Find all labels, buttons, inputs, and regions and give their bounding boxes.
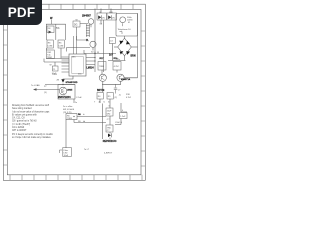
capacitor C6 [106, 125, 113, 132]
border frame inner [7, 9, 141, 174]
capacitor C3 [109, 38, 115, 61]
svg-text:10uF: 10uF [64, 155, 69, 157]
svg-text:P4: it keeps set sorts correct: P4: it keeps set sorts correctly in musl… [12, 133, 53, 136]
svg-text:2N45: 2N45 [67, 89, 73, 92]
svg-text:Drawing from Nuffield: as some: Drawing from Nuffield: as some stuff [12, 104, 49, 107]
resistor R6 [47, 40, 53, 48]
diode D1 in block [47, 26, 54, 34]
svg-text:TRD: TRD [107, 128, 112, 130]
diode D4 [57, 76, 78, 84]
svg-text:C4uF: C4uF [52, 74, 58, 76]
svg-text:(>= & 4F (7theft?): (>= & 4F (7theft?) [12, 123, 30, 126]
wire lower bridge bus [108, 60, 126, 62]
capacitor P1 [50, 65, 59, 76]
junction dot J3 [62, 84, 63, 85]
svg-text:2N4571A: 2N4571A [121, 78, 131, 81]
wire long vertical to filter [65, 120, 67, 149]
junction dot J5 [94, 57, 95, 58]
diode D2 [97, 13, 107, 20]
polarized capacitor C9 [60, 148, 72, 158]
notes text block [12, 104, 53, 139]
svg-text:COM: COM [47, 46, 52, 48]
svg-text:BRN: BRN [131, 56, 136, 58]
junction dot J6 [94, 60, 95, 61]
border tick marks left [3, 30, 7, 165]
wire BR1 bottom [124, 56, 126, 61]
svg-text:4W, 47uH/E: 4W, 47uH/E [63, 109, 75, 111]
svg-text:LM324: LM324 [87, 67, 95, 70]
svg-text:so I hope I did not make any m: so I hope I did not make any mistakes. [12, 136, 52, 139]
capacitor C7 [114, 85, 117, 94]
PDF badge [0, 0, 42, 25]
svg-text:4k: 4k [99, 102, 101, 104]
BR1 diode d [126, 51, 130, 55]
wire R62 right [74, 117, 106, 123]
svg-text:4-INPUT: 4-INPUT [104, 153, 113, 155]
svg-text:C2uF G: C2uF G [115, 122, 122, 124]
border tick marks bottom [10, 175, 142, 181]
capacitor C8 [120, 113, 128, 119]
svg-text:C4, C11, C8: C4, C11, C8 [12, 118, 25, 120]
svg-text:C.5uF: C.5uF [76, 97, 82, 99]
wire M1 bottom [73, 99, 75, 103]
svg-text:6Hz: 6Hz [107, 114, 111, 116]
svg-text:COM: COM [58, 46, 63, 48]
border tick marks top [3, 4, 145, 180]
resistor network enclosure R5 block [46, 24, 65, 40]
svg-text:(2): (2) [115, 97, 118, 99]
wire BR1 left [114, 46, 118, 48]
transformer T1 winding [77, 24, 90, 40]
svg-text:DG: DG [74, 24, 78, 26]
wire W riser [51, 20, 53, 25]
wire R4 down long [100, 99, 103, 139]
svg-text:2N4571/204: 2N4571/204 [58, 96, 71, 99]
svg-text:kd: kd [83, 121, 85, 123]
diode D5 [108, 132, 111, 140]
wire C8 down [115, 119, 121, 125]
svg-text:have string marked: have string marked [12, 107, 32, 110]
U1 pins left [62, 36, 96, 72]
svg-text:I do no know value of thorazin: I do no know value of thorazine caps [12, 110, 50, 113]
wire R17/R16 to Q4 Q5 [102, 70, 121, 84]
wire feedback y=47.5 [67, 48, 91, 52]
wire R9 down [109, 99, 111, 108]
wire BR1 right [131, 46, 137, 48]
svg-text:To LOAD: To LOAD [31, 84, 40, 87]
svg-text:BRT39: BRT39 [97, 90, 105, 92]
svg-text:C2 is 220k0: C2 is 220k0 [12, 127, 25, 129]
junction dot J4 [73, 116, 74, 117]
svg-text:2N4567: 2N4567 [82, 15, 91, 18]
svg-text:Filter: Filter [64, 149, 69, 152]
switch S1 box [73, 21, 80, 27]
U1 pins top [74, 36, 77, 54]
svg-text:TRIM: TRIM [99, 66, 104, 68]
capacitor C5 [106, 108, 113, 116]
svg-text:W: W [50, 65, 52, 67]
svg-text:B.: B. [86, 39, 89, 42]
telephone interface box TB1 [116, 14, 138, 37]
wire BR1 top [124, 36, 126, 38]
svg-text:25uF: 25uF [107, 111, 112, 113]
wire input bus y=84.5 [45, 84, 75, 86]
transistor Q6 [59, 87, 67, 95]
op-amp U1 [62, 36, 96, 76]
wire Q5 to V3 bus [124, 71, 137, 78]
wire C3 down [111, 44, 113, 61]
wire emitter bus y=53.5 [84, 50, 116, 54]
svg-text:4x: 4x [119, 95, 121, 97]
svg-text:To L?: To L? [84, 149, 90, 151]
svg-text:B: values yet guess with: B: values yet guess with [12, 113, 37, 116]
wire vertical bus net V1 x=95 [94, 9, 96, 73]
U1 pins right [86, 58, 95, 65]
jack J1 [120, 32, 123, 35]
BR1 diode a [119, 41, 123, 45]
wire vertical bus net V2 x=103.5 [103, 20, 105, 72]
wire S1 to Q1 [80, 23, 88, 25]
border frame outer [3, 4, 145, 180]
svg-text:W: W [97, 52, 99, 54]
svg-text:Telephone 10: Telephone 10 [118, 29, 132, 31]
resistor R17 [98, 62, 106, 71]
transistor Q1 [88, 19, 94, 28]
diode D3 [107, 13, 117, 20]
wire vertical bus net V3 x=137.5 [137, 13, 139, 71]
wire C5 down [109, 116, 111, 125]
resistor R62 trim [66, 114, 77, 121]
svg-text:4.7k2: 4.7k2 [114, 66, 120, 68]
transistor Q3 [120, 17, 126, 23]
wire right column [121, 103, 127, 112]
svg-text:(9): (9) [44, 92, 47, 94]
transistor Q2 [90, 41, 96, 50]
resistor R4 [97, 93, 103, 100]
svg-text:C8? is 40F/0T: C8? is 40F/0T [12, 130, 27, 132]
wire top bus verticals to diode boxes [95, 9, 138, 73]
wire D2 down [100, 20, 102, 24]
border tick marks right [141, 31, 145, 166]
resistor R9 [107, 93, 113, 100]
amplifier module box M1 [58, 85, 75, 100]
BR1 diode c [120, 51, 124, 54]
svg-text:2N: 2N [48, 28, 51, 30]
junction dot J2 [94, 53, 95, 54]
resistor R7 [58, 40, 64, 48]
wire R61 to IC pins [44, 48, 69, 66]
resistor R16 [113, 62, 121, 71]
wire S1 to T1 [77, 27, 87, 40]
svg-text:REPRODUC: REPRODUC [103, 140, 117, 143]
transistor Q5 [117, 74, 124, 81]
svg-text:C8 I guess but is 7k0 k0: C8 I guess but is 7k0 k0 [12, 120, 37, 123]
wire To LOAD arrow [33, 88, 59, 90]
svg-text:2x is uSec: 2x is uSec [63, 106, 73, 108]
svg-text:1.2uF: 1.2uF [120, 116, 126, 118]
svg-text:TRIM: TRIM [67, 118, 72, 120]
wire Q4 emitter [102, 81, 104, 92]
bridge rectifier BR1 [114, 36, 138, 61]
svg-text:STANFORD: STANFORD [66, 81, 78, 84]
BR1 diode b [126, 41, 130, 45]
svg-text:2x?: 2x? [109, 55, 114, 57]
transistor Q4 [99, 74, 106, 81]
resistor R61 trim [46, 50, 54, 59]
